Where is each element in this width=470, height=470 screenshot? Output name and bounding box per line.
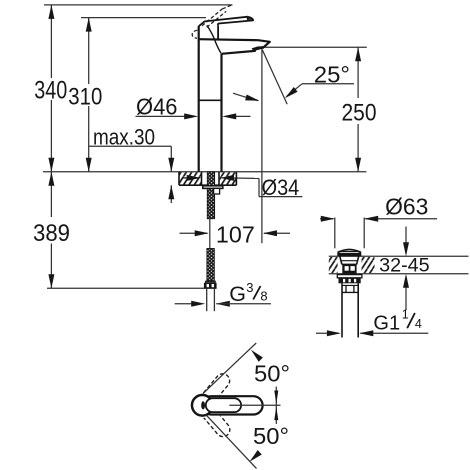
svg-text:Ø63: Ø63 bbox=[385, 193, 428, 219]
svg-text:310: 310 bbox=[68, 84, 102, 111]
svg-text:4: 4 bbox=[415, 317, 422, 331]
svg-text:Ø34: Ø34 bbox=[262, 175, 300, 200]
svg-text:G: G bbox=[229, 282, 246, 306]
svg-text:50°: 50° bbox=[254, 361, 290, 387]
svg-text:8: 8 bbox=[260, 289, 267, 304]
svg-text:25°: 25° bbox=[314, 62, 350, 88]
svg-text:50°: 50° bbox=[253, 423, 289, 449]
svg-text:Ø46: Ø46 bbox=[136, 94, 178, 120]
svg-text:389: 389 bbox=[33, 220, 70, 247]
svg-text:340: 340 bbox=[34, 78, 67, 105]
svg-text:1: 1 bbox=[402, 308, 409, 322]
svg-text:G1: G1 bbox=[373, 313, 400, 335]
svg-text:3: 3 bbox=[246, 280, 253, 295]
svg-text:max.30: max.30 bbox=[93, 124, 155, 149]
svg-text:32-45: 32-45 bbox=[379, 255, 430, 276]
svg-text:107: 107 bbox=[216, 221, 255, 247]
svg-text:250: 250 bbox=[342, 100, 377, 127]
